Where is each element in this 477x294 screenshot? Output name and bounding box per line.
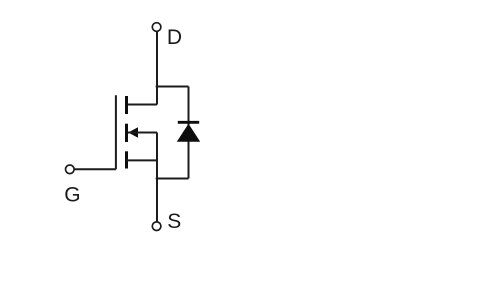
terminal D (152, 23, 161, 32)
wire source vertical (156, 133, 158, 222)
node drain junction (156, 85, 159, 88)
transistor Q1 source channel bar (125, 151, 128, 168)
wire body connection (128, 132, 157, 134)
wire drain vertical upper (156, 32, 158, 87)
transistor Q1 body arrow (128, 127, 138, 137)
terminal S (152, 222, 161, 231)
wire diode branch top (157, 86, 189, 88)
wire source stub (127, 159, 158, 161)
terminal G (66, 165, 75, 174)
transistor Q1 gate electrode line (115, 95, 117, 169)
transistor Q1 body channel bar (125, 124, 128, 142)
transistor Q1 drain channel bar (125, 96, 128, 114)
svg-text:D: D (167, 26, 182, 49)
wire gate horizontal (74, 168, 116, 170)
wire diode vertical (188, 87, 190, 179)
wire diode branch bottom (157, 178, 189, 180)
diode D1 anode triangle (177, 124, 200, 142)
svg-text:G: G (64, 184, 80, 207)
diode D1 cathode bar (178, 121, 199, 124)
wire drain vertical lower (156, 87, 158, 105)
svg-text:S: S (167, 210, 181, 233)
node source junction (156, 177, 159, 180)
wire drain stub (127, 104, 158, 106)
